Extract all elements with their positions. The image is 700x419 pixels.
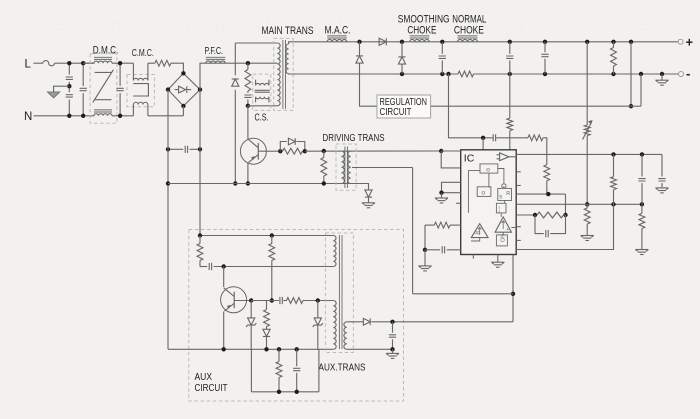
block box2 <box>477 187 491 197</box>
inductor D.M.C. choke on L line <box>94 57 112 63</box>
junction dot bridge bottom <box>181 104 185 108</box>
junction dot ictop x=483.1 <box>481 136 485 140</box>
wire fb corner down <box>565 194 567 215</box>
svg-text:P.F.C.: P.F.C. <box>205 46 224 57</box>
svg-text:s: s <box>499 195 502 201</box>
diode D-aux chain <box>263 329 270 349</box>
junction dot N at x=83.2 <box>81 114 85 118</box>
wire Rt corner down <box>424 225 426 250</box>
junction dot Ct node <box>423 248 427 252</box>
wire L line to D.M.C. <box>55 62 95 64</box>
wire rail2 resistor drop to IC <box>509 74 511 118</box>
wire D4 to regulation <box>360 63 378 106</box>
capacitor Cx2 after D.M.C. <box>117 63 124 116</box>
label AUX <box>195 371 213 383</box>
ground below R-gnd2 <box>635 250 648 255</box>
label + sign <box>686 35 694 50</box>
svg-text:CHOKE: CHOKE <box>407 25 436 37</box>
svg-text:D.M.C.: D.M.C. <box>93 44 119 56</box>
junction dot base net right <box>303 149 307 153</box>
junction dot N at x=69.3 <box>67 114 71 118</box>
resistor R-drive damp <box>321 151 327 184</box>
varistor Z symbol inside D.M.C. <box>93 70 114 103</box>
label IC <box>464 153 475 165</box>
junction dot Q2 base node <box>249 298 253 302</box>
junction dot out wire x=613.5 <box>611 152 615 156</box>
diode D4 (cathode up) <box>356 56 363 63</box>
wire IC bottom to aux feed <box>512 255 514 323</box>
junction dot rail3 x=631 <box>629 104 633 108</box>
junction dot rail1 x=402 <box>400 40 404 44</box>
ground IC bottom <box>491 262 504 267</box>
capacitor Cy2 (earth chain lower) <box>66 95 73 97</box>
diode D3 series on rail1 <box>379 38 386 45</box>
ground IC left pins <box>435 198 448 203</box>
transformer T3 primary lower <box>333 301 336 350</box>
wire L through DMC <box>112 62 133 64</box>
resistor R-aux4 <box>276 349 282 392</box>
svg-text:CHOKE: CHOKE <box>454 25 484 37</box>
core T1 bars <box>283 40 286 109</box>
svg-text:o: o <box>482 190 486 197</box>
ground at - output <box>656 80 669 85</box>
wire RC cap loop <box>535 215 544 234</box>
fuse F1 <box>43 61 55 66</box>
junction dot L at x=69.3 <box>67 61 71 65</box>
transistor Q2 base lead <box>234 300 251 302</box>
core C.M.C. bracket <box>133 84 148 96</box>
junction dot aux gnd x=279 <box>277 347 281 351</box>
junction dot aux gnd x=266.5 <box>264 347 268 351</box>
wire cap chain lower <box>68 86 70 116</box>
junction dot aux out cap bottom <box>390 347 394 351</box>
label MAIN TRANS <box>262 25 314 37</box>
label D.M.C. <box>93 44 119 56</box>
wire T3 secondary top <box>347 321 363 323</box>
junction dot x=168 on base rail <box>166 181 170 185</box>
wire collector drop <box>247 106 249 139</box>
label CIRCUIT (aux) <box>195 382 228 394</box>
wire sense + drop x=631 <box>630 42 632 106</box>
block D.M.C. dashed box <box>90 54 117 124</box>
wire Rfb lower lead <box>546 181 548 194</box>
block box4 <box>496 203 506 213</box>
label CHOKE (normal) <box>454 25 484 37</box>
block REGULATION CIRCUIT box <box>377 95 431 118</box>
transistor Q2 base bar <box>233 292 235 308</box>
junction dot RC left <box>533 213 537 217</box>
wire +V top rail <box>293 41 678 43</box>
junction dot aux base net x=271.8 <box>270 298 274 302</box>
junction dot aux gnd x=296.7 <box>295 347 299 351</box>
capacitor Cx1 across line <box>80 63 87 116</box>
junction dot rail2 x=613.5 <box>611 72 615 76</box>
svg-text:R: R <box>506 191 510 197</box>
capacitor C-out3 <box>541 42 548 74</box>
wire second rail right part <box>474 73 679 75</box>
transistor Q2 emitter stroke with arrow <box>224 303 234 311</box>
wire aux bottom rail <box>168 348 333 350</box>
junction dot snubber bottom <box>246 104 250 108</box>
svg-text:IC: IC <box>464 153 475 165</box>
wire drive into IC pin1 <box>441 150 461 152</box>
junction dot bridge left <box>166 87 170 91</box>
capacitor C-aux out <box>389 322 396 350</box>
inductor smoothing choke <box>410 36 430 42</box>
junction dot rail2 x=509.8 <box>508 72 512 76</box>
junction dot rail1 x=631 <box>629 40 633 44</box>
wire ictop middle <box>496 137 528 139</box>
junction dot N at x=120.1 <box>118 114 122 118</box>
transformer C.S. bottom winding <box>256 97 269 103</box>
svg-text:CIRCUIT: CIRCUIT <box>380 106 412 118</box>
wire aux base net <box>251 300 279 302</box>
wire N line <box>34 115 95 117</box>
capacitor C-aux4 <box>293 349 300 392</box>
diode D-aux out <box>363 318 370 325</box>
block C.S. dashed box <box>253 74 271 110</box>
label AUX.TRANS <box>319 361 366 373</box>
junction dot bridge right <box>198 87 202 91</box>
bridge rectifier BR1 diamond <box>168 73 200 106</box>
junction dot drive resistor bottom <box>322 181 326 185</box>
ground aux output <box>386 353 399 358</box>
junction dot IC gnd pins <box>439 191 443 195</box>
capacitor C-aux coupling <box>200 263 333 270</box>
inductor normal choke <box>458 36 478 42</box>
resistor R-base parallel <box>283 148 303 154</box>
wire left dc- vertical <box>167 90 169 350</box>
wire Q2 emitter down <box>223 312 225 350</box>
block C.M.C. dashed box <box>127 75 154 107</box>
junction dot rail1 x=442.3 <box>440 40 444 44</box>
resistor R-gnd2 <box>639 204 645 249</box>
core C.S. bars <box>255 90 270 92</box>
transistor Q2 body <box>221 287 247 313</box>
junction dot aux net x=317.8 <box>316 298 320 302</box>
wire IC internal bus <box>468 169 516 242</box>
resistor R-fb vertical <box>544 165 550 181</box>
wire base drive rail <box>168 183 369 185</box>
wire MAC rectifier branch <box>359 42 361 56</box>
inductor P.F.C. choke <box>206 57 226 63</box>
resistor R-out divider <box>611 154 617 204</box>
junction dot out wire x=642 <box>640 152 644 156</box>
resistor R-bleed <box>611 42 617 74</box>
pin stub IC right 1 <box>516 171 521 173</box>
transformer T2 secondary winding <box>348 151 351 184</box>
junction dot x=168 y=149.3 <box>166 147 170 151</box>
wire second rail left part <box>293 73 458 75</box>
transformer C.S. top winding <box>256 80 269 86</box>
capacitor C-out2 <box>506 42 513 74</box>
terminal - output <box>679 72 684 77</box>
wire ground stub at output <box>661 74 663 80</box>
resistor R-timing <box>434 222 450 228</box>
wire base jog right <box>296 142 304 152</box>
flip-flop circle <box>502 184 506 188</box>
svg-text:DRIVING TRANS: DRIVING TRANS <box>323 132 385 144</box>
pin stub IC right 3 <box>516 226 521 228</box>
capacitor C-timing <box>442 246 444 253</box>
label CIRCUIT (regulation) <box>380 106 412 118</box>
wire bridge right to PFC line <box>200 63 277 89</box>
junction dot aux gnd x=223.7 <box>222 347 226 351</box>
label DRIVING TRANS <box>323 132 385 144</box>
junction dot feedback rail <box>511 292 515 296</box>
wire T2 secondary bottom corner <box>351 184 369 190</box>
wire D5 branch lower <box>401 64 403 74</box>
ground below divider <box>581 236 594 241</box>
wire ictop corner down <box>543 138 547 165</box>
wire aux sub-loop bottom <box>251 391 319 393</box>
junction dot wireB x=587.2 <box>585 202 589 206</box>
inductor C.M.C. winding L side <box>133 63 148 80</box>
capacitor C-out1 <box>439 42 446 74</box>
junction dot rail2 x=641 <box>639 72 643 76</box>
wire aux out to IC vertical <box>371 321 513 323</box>
transistor Q1 base lead <box>258 150 280 152</box>
wire reset diode branch upper <box>234 43 236 75</box>
capacitor C-out filter <box>658 179 665 181</box>
comparator triangle (right) <box>495 217 511 233</box>
wire IC output top <box>516 153 662 155</box>
block MAIN TRANS dashed box <box>274 38 294 110</box>
wire Ct to IC <box>447 249 461 251</box>
zener ZD2 <box>313 301 323 350</box>
transistor Q1 base bar <box>257 143 259 160</box>
junction dot drive resistor top <box>322 149 326 153</box>
wire N through DMC <box>112 115 133 117</box>
resistor R-div lower <box>584 204 590 235</box>
flip-flop S-R box <box>498 188 512 200</box>
inductor C.M.C. winding N side <box>133 102 148 116</box>
transistor Q1 body <box>240 138 266 164</box>
junction dot PFC line x=247.9 <box>246 61 250 65</box>
node L input terminal <box>25 58 32 70</box>
label - sign <box>686 66 690 81</box>
junction dot rail1 x=613.5 <box>611 40 615 44</box>
junction dot subloop x=296.7 <box>295 390 299 394</box>
junction dot rail2 x=545 <box>543 72 547 76</box>
wire right corner long vertical <box>199 149 201 235</box>
junction dot rail2 x=448.5 <box>446 72 450 76</box>
capacitor C-snub <box>244 91 251 106</box>
wire RC cap loop right <box>550 215 565 234</box>
block osc box1 <box>480 164 498 174</box>
label SMOOTHING <box>398 14 450 26</box>
op-amp U-top triangle <box>497 153 517 161</box>
wire feedback rail <box>413 293 513 295</box>
wire L to DMC <box>83 62 94 64</box>
zener ZD1 <box>246 301 256 350</box>
svg-text:AUX.TRANS: AUX.TRANS <box>319 361 366 373</box>
junction dot wireB x=613.5 <box>611 202 615 206</box>
wire T2 secondary tap <box>352 167 413 169</box>
wire reset diode branch lower <box>234 90 236 184</box>
pin stub IC left 1 <box>456 202 461 204</box>
junction dot drive wire at IC <box>439 149 443 153</box>
wire IC gnd pin pair <box>442 182 461 192</box>
transformer T3 primary upper <box>333 236 336 267</box>
wire cap chain upper <box>68 63 70 86</box>
junction dot fb wire <box>546 192 550 196</box>
pin stub IC bottom 1 <box>472 255 474 259</box>
svg-text:ON: ON <box>500 234 506 242</box>
transistor Q1 emitter stroke with arrow <box>249 155 259 163</box>
wire aux sub-loop right <box>318 349 320 392</box>
transistor Q2 collector stroke <box>224 288 235 297</box>
transformer T1 secondary winding <box>286 44 289 74</box>
wire adj branch lower <box>586 136 588 205</box>
wire base net to trans <box>303 300 333 302</box>
wire D5 branch upper <box>401 42 403 57</box>
wire adj branch upper <box>586 42 588 125</box>
svg-text:L: L <box>25 58 32 70</box>
diode D5 (cathode up) <box>398 57 405 64</box>
node N input terminal <box>24 111 32 123</box>
wire L to bridge top <box>171 63 184 73</box>
inductor D.M.C. choke on N line <box>94 110 112 116</box>
resistor R-vcc <box>507 118 513 130</box>
ground below T2 diode <box>362 203 375 208</box>
wire aux sub-loop left <box>250 349 252 392</box>
transistor Q1 collector stroke <box>248 139 258 148</box>
wire IC gnd stem <box>441 193 443 198</box>
svg-text:N: N <box>24 111 32 123</box>
svg-text:MAIN TRANS: MAIN TRANS <box>262 25 314 37</box>
resistor R-comp parallel <box>537 212 564 218</box>
label C.M.C. <box>132 47 154 59</box>
label REGULATION <box>380 96 428 108</box>
junction dot base node <box>278 149 282 153</box>
capacitor C-aux base <box>280 297 282 304</box>
junction dot rail2 x=442.3 <box>440 72 444 76</box>
wire earth branch <box>54 86 70 92</box>
arrow on variable resistor <box>583 120 593 140</box>
resistor R-ictop series <box>528 135 543 141</box>
capacitor Cy1 (L to earth chain upper) <box>66 77 73 79</box>
diode inside bridge <box>175 86 192 93</box>
junction dot rail1 x=509.8 <box>508 40 512 44</box>
wire Rvcc lower lead <box>509 131 511 150</box>
label P.F.C. <box>205 46 224 57</box>
label C.S. <box>255 113 269 124</box>
junction dot bridge top <box>181 71 185 75</box>
svg-text:+: + <box>506 227 509 233</box>
wire L after CMC <box>148 62 155 64</box>
capacitor C-base coupling <box>168 146 200 153</box>
svg-text:M.A.C.: M.A.C. <box>325 25 351 37</box>
wire base net upper jog <box>280 142 287 152</box>
wire Q2 collector drop <box>223 267 225 288</box>
wire cap to gnd x=662 <box>661 183 663 188</box>
wire primary return <box>248 105 278 107</box>
junction dot RC right <box>563 213 567 217</box>
junction dot rail2 x=662 <box>660 72 664 76</box>
resistor R-aux3 and diode chain <box>264 301 270 330</box>
wire IC pin215 to RC <box>516 214 535 216</box>
wire Ct lead <box>425 249 440 251</box>
wire drive line to IC <box>305 150 441 152</box>
wire bridge bottom to N <box>182 106 184 116</box>
junction dot L at x=83.2 <box>81 61 85 65</box>
wire T1 secondary top to rail <box>289 42 294 44</box>
transformer T1 primary winding <box>277 43 280 106</box>
ground filter cap <box>656 188 669 193</box>
junction dot subloop x=279 <box>277 390 281 394</box>
pin stub IC right 2 <box>516 185 521 187</box>
wire aux out gnd stem <box>392 349 394 353</box>
resistor R-aux base <box>287 298 304 304</box>
junction dot rail2 x=402 <box>400 72 404 76</box>
wire IC comp pin (wireB) <box>516 203 642 205</box>
op-amp IC outer box <box>461 150 517 255</box>
wire Q1 emitter down <box>247 163 249 184</box>
junction dot wireB x=641.9 <box>640 202 644 206</box>
diode D-clamp (cathode up) <box>232 79 239 86</box>
wire regulation rail3 <box>431 105 641 107</box>
junction dot L at x=120.1 <box>118 61 122 65</box>
resistor R-snub vertical <box>245 63 251 91</box>
diode D-base parallel <box>288 138 295 145</box>
label CHOKE (smoothing) <box>407 25 436 37</box>
block ON box <box>496 234 507 246</box>
transformer T3 secondary <box>344 322 347 350</box>
wire IC fb pin <box>516 193 565 195</box>
ground timing node <box>419 266 432 271</box>
wire N after CMC <box>148 115 184 117</box>
wire D-t2 to ground <box>368 197 370 203</box>
resistor R-series rail2 <box>458 71 474 77</box>
wire reset winding top <box>235 42 277 44</box>
wire Rt lead left <box>425 224 434 226</box>
transformer T2 primary winding <box>342 151 345 184</box>
inductor M.A.C. saturable choke <box>327 36 347 42</box>
wire Rt lead right <box>450 224 461 226</box>
wire drive branch to pin 167.9 <box>441 151 461 168</box>
svg-text:+: + <box>686 35 694 50</box>
wire out corner down x=662 <box>661 154 663 176</box>
wire cap to resistor <box>283 300 286 302</box>
wire L input segment <box>34 62 43 64</box>
junction dot aux rail x=271.8 <box>270 233 274 237</box>
wire rail3 corner up x=641 <box>640 74 642 106</box>
junction dot rail1 x=587.2 <box>585 40 589 44</box>
wire T2 tap drop <box>412 168 414 294</box>
core T3 bars <box>339 235 342 349</box>
svg-text:o: o <box>486 167 490 174</box>
resistor R-adj variable <box>584 125 590 136</box>
resistor R-aux1 <box>197 236 203 267</box>
wire T1 secondary bottom to rail <box>289 73 294 75</box>
pin stub IC right 4 <box>516 239 521 241</box>
ground earth electrode (input) <box>48 92 60 98</box>
decorative watermark (not labelled further) <box>52 17 652 34</box>
wire Ct ground stem <box>424 250 426 266</box>
label M.A.C. <box>325 25 351 37</box>
capacitor C-comp2 <box>638 154 645 204</box>
svg-text:C.S.: C.S. <box>255 113 269 124</box>
junction dot aux out <box>390 320 394 324</box>
svg-text:-: - <box>686 66 690 81</box>
junction dot aux rail x=200.6 <box>198 233 202 237</box>
junction dot clamp rail <box>233 181 237 185</box>
svg-text:op: op <box>474 230 480 236</box>
block AUX CIRCUIT dashed box <box>189 230 404 402</box>
capacitor C-ictop series <box>493 134 495 141</box>
wire rail2 to IC-top wire <box>449 74 493 138</box>
